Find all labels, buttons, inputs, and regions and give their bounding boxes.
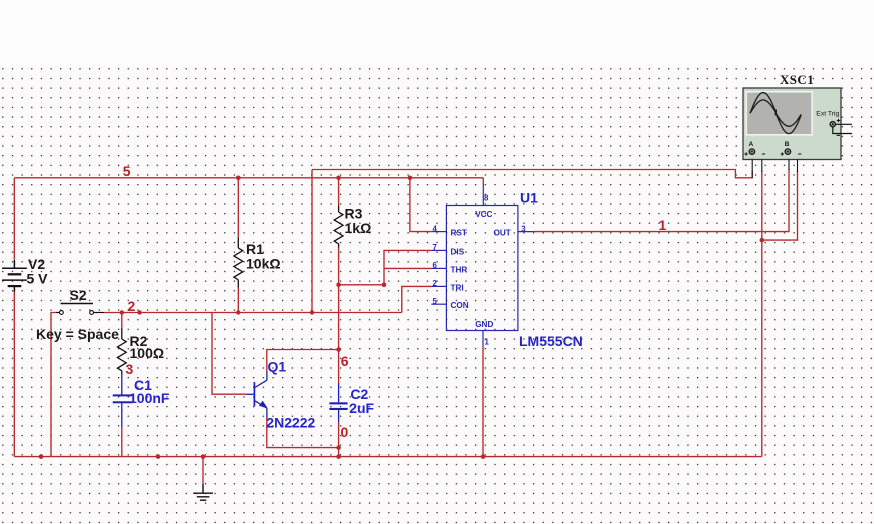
svg-text:B: B xyxy=(785,141,790,148)
junction DIS THR xyxy=(382,283,387,288)
ground xyxy=(193,484,213,500)
svg-text:6: 6 xyxy=(433,261,438,270)
junction node5 R3 top xyxy=(336,176,341,181)
wire DIS pin7 xyxy=(384,250,431,284)
wire battery bottom vertical xyxy=(13,292,15,457)
junction R3 bottom xyxy=(336,283,341,288)
wire ground rail bottom xyxy=(14,456,762,458)
resistor R3 xyxy=(334,206,343,248)
junction node2 R2 top xyxy=(120,310,124,314)
wire RST pin4 xyxy=(410,178,431,232)
capacitor C1 xyxy=(113,374,132,457)
svg-text:GND: GND xyxy=(475,320,493,329)
wire OUT pin3 to scope B xyxy=(534,169,789,232)
svg-text:1: 1 xyxy=(659,217,667,233)
svg-text:THR: THR xyxy=(451,265,468,274)
svg-text:5 V: 5 V xyxy=(27,271,49,287)
wire THR pin6 xyxy=(384,267,431,269)
svg-text:1: 1 xyxy=(485,337,490,346)
svg-text:100nF: 100nF xyxy=(129,390,170,406)
svg-text:XSC1: XSC1 xyxy=(780,72,814,87)
capacitor C2 xyxy=(329,383,347,422)
wire R3 bottom to DIS/THR xyxy=(339,284,384,286)
wire S2 left branch xyxy=(51,313,57,457)
svg-text:10kΩ: 10kΩ xyxy=(246,256,281,272)
svg-text:2: 2 xyxy=(128,298,136,314)
svg-text:100Ω: 100Ω xyxy=(130,345,165,361)
svg-text:5: 5 xyxy=(123,163,131,179)
wire C2 bottom to emitter rail xyxy=(338,422,340,457)
svg-text:Q1: Q1 xyxy=(268,359,287,375)
junction rail ground xyxy=(201,454,206,459)
svg-text:LM555CN: LM555CN xyxy=(519,333,583,349)
svg-text:4: 4 xyxy=(433,224,438,233)
svg-text:2: 2 xyxy=(433,279,438,288)
junction node2 R1 bottom xyxy=(236,310,240,314)
resistor R2 xyxy=(117,328,126,374)
svg-text:CON: CON xyxy=(451,301,469,310)
wire scope A horizontal xyxy=(312,170,752,178)
junction rail C2 xyxy=(336,454,341,459)
svg-text:2N2222: 2N2222 xyxy=(266,415,315,431)
svg-text:3: 3 xyxy=(126,361,134,377)
wire battery top vertical xyxy=(13,178,15,260)
junction rail GND pin xyxy=(481,454,486,459)
junction rail mid xyxy=(156,454,161,459)
junction node0 emitter C2 xyxy=(336,445,341,450)
wire ground stem xyxy=(202,457,204,484)
wire node2 to scope A riser xyxy=(311,170,313,313)
wire R1 bottom lead xyxy=(237,288,239,313)
svg-text:DIS: DIS xyxy=(451,247,465,256)
oscilloscope XSC1 xyxy=(743,88,852,178)
junction node5 R1 top xyxy=(236,176,241,181)
resistor R1 xyxy=(234,237,243,287)
junction node2 mid xyxy=(137,310,141,314)
svg-text:S2: S2 xyxy=(70,287,87,303)
svg-text:A: A xyxy=(749,141,754,148)
op-amp U1 555 timer box xyxy=(431,184,533,346)
svg-text:7: 7 xyxy=(433,243,437,252)
junction node6 collector xyxy=(336,347,341,352)
wire R2 top lead xyxy=(121,313,123,329)
svg-text:TRI: TRI xyxy=(451,283,464,292)
svg-text:VCC: VCC xyxy=(475,210,492,219)
svg-text:2uF: 2uF xyxy=(349,400,374,416)
svg-text:5: 5 xyxy=(433,297,438,306)
wire Q1 emitter down xyxy=(267,418,339,448)
svg-text:Ext Trig: Ext Trig xyxy=(816,110,839,117)
svg-text:6: 6 xyxy=(341,353,349,369)
wire TRI riser xyxy=(402,286,432,312)
wire GND pin1 to rail xyxy=(482,346,484,457)
battery V2 xyxy=(2,260,27,292)
svg-text:Key = Space: Key = Space xyxy=(36,326,119,342)
wire R1 top lead xyxy=(237,178,239,238)
switch S2 xyxy=(56,304,104,315)
wire scope A- down to rail xyxy=(761,171,763,457)
wire scope B- jumper xyxy=(762,171,798,240)
transistor Q1 2N2222 xyxy=(247,372,267,419)
wire Q1 base from node2 xyxy=(212,313,247,395)
svg-text:8: 8 xyxy=(484,194,489,203)
junction scope ground xyxy=(760,238,765,243)
junction rail S2 xyxy=(39,454,44,459)
svg-text:3: 3 xyxy=(521,224,526,233)
svg-text:0: 0 xyxy=(341,424,349,440)
wire VCC pin8 xyxy=(482,178,484,184)
svg-text:OUT: OUT xyxy=(494,229,511,238)
svg-text:1kΩ: 1kΩ xyxy=(345,220,372,236)
svg-text:RST: RST xyxy=(451,229,467,238)
junction node2 scope riser xyxy=(310,310,314,314)
wire R3 bottom to C2 top xyxy=(338,248,340,383)
wire net5 top horizontal xyxy=(14,177,483,179)
junction node5 RST riser xyxy=(408,176,413,181)
wire node2 horizontal xyxy=(104,312,402,314)
wire Q1 collector to node6 xyxy=(267,350,339,372)
svg-text:U1: U1 xyxy=(520,190,538,206)
wire R3 top lead xyxy=(338,178,340,206)
